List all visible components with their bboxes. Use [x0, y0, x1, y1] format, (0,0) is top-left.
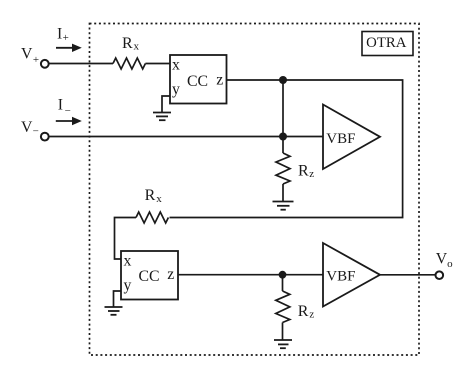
op-amp block CC2 (current conveyor)	[121, 251, 178, 300]
svg-text:+: +	[63, 32, 69, 44]
wire V+ to resistor Rx	[49, 63, 113, 65]
OTRA label box	[362, 32, 413, 56]
wire junction3 down to resistor Rz (bottom)	[282, 275, 284, 291]
svg-text:VBF: VBF	[326, 131, 355, 147]
ground (Rz bottom)	[274, 340, 292, 348]
wire CC1 z output to right side and down to Rx2 level	[170, 80, 403, 218]
svg-text:V: V	[436, 251, 448, 268]
svg-text:I: I	[58, 97, 63, 114]
node V+ input terminal	[21, 46, 49, 68]
svg-text:o: o	[447, 258, 453, 270]
svg-text:z: z	[309, 308, 314, 320]
wire CC2 z output to VBF2 input	[178, 274, 323, 276]
wire CC2 y input to ground	[114, 291, 122, 307]
resistor Rx (top)	[113, 35, 145, 69]
resistor Rx (bottom)	[136, 187, 168, 223]
svg-text:x: x	[124, 253, 132, 270]
svg-text:z: z	[167, 266, 174, 283]
svg-text:CC: CC	[139, 268, 160, 285]
svg-text:−: −	[65, 105, 71, 117]
svg-text:R: R	[122, 35, 133, 52]
current I- arrow	[56, 97, 82, 126]
svg-text:VBF: VBF	[326, 269, 355, 285]
svg-text:V: V	[21, 46, 33, 63]
node V- input terminal	[21, 119, 49, 141]
svg-text:x: x	[134, 41, 140, 53]
wire Rz to ground	[282, 184, 284, 201]
wire V- to VBF1 input	[48, 136, 323, 138]
svg-text:V: V	[21, 119, 33, 136]
svg-text:y: y	[124, 277, 132, 294]
svg-text:CC: CC	[187, 73, 208, 90]
svg-text:z: z	[216, 71, 223, 88]
svg-text:R: R	[145, 187, 156, 204]
buffer VBF2	[323, 243, 380, 307]
wire VBF2 output to Vo	[380, 274, 436, 276]
svg-text:x: x	[172, 56, 180, 73]
svg-text:−: −	[33, 126, 39, 138]
wire junction down to V- line	[282, 80, 284, 137]
wire CC1 y input to ground	[162, 96, 170, 112]
current I+ arrow	[56, 25, 82, 52]
svg-text:y: y	[172, 81, 180, 98]
wire Rx2 left side down to CC2 x input	[115, 218, 137, 260]
junction node on z2 wire	[279, 271, 287, 279]
ground (CC1 y)	[153, 113, 171, 121]
svg-text:OTRA: OTRA	[366, 35, 407, 51]
svg-text:R: R	[298, 163, 309, 180]
node Vo output terminal	[436, 251, 454, 279]
resistor Rz (top)	[276, 153, 314, 184]
OTRA dotted boundary box	[90, 24, 420, 356]
svg-text:I: I	[57, 25, 62, 42]
wire junction to resistor Rz (top)	[282, 137, 284, 154]
junction node on V- wire	[279, 133, 287, 141]
svg-text:+: +	[33, 54, 39, 66]
wire resistor Rx to CC1 x input	[145, 63, 170, 65]
junction node on z wire	[279, 76, 287, 84]
buffer VBF1	[323, 105, 380, 170]
op-amp block CC1 (current conveyor)	[170, 55, 227, 104]
ground (CC2 y)	[105, 307, 123, 315]
svg-text:R: R	[298, 303, 309, 320]
svg-text:z: z	[309, 168, 314, 180]
ground (Rz top)	[273, 202, 294, 210]
wire Rz2 to ground	[282, 323, 284, 340]
resistor Rz (bottom)	[276, 291, 315, 323]
svg-text:x: x	[156, 193, 162, 205]
